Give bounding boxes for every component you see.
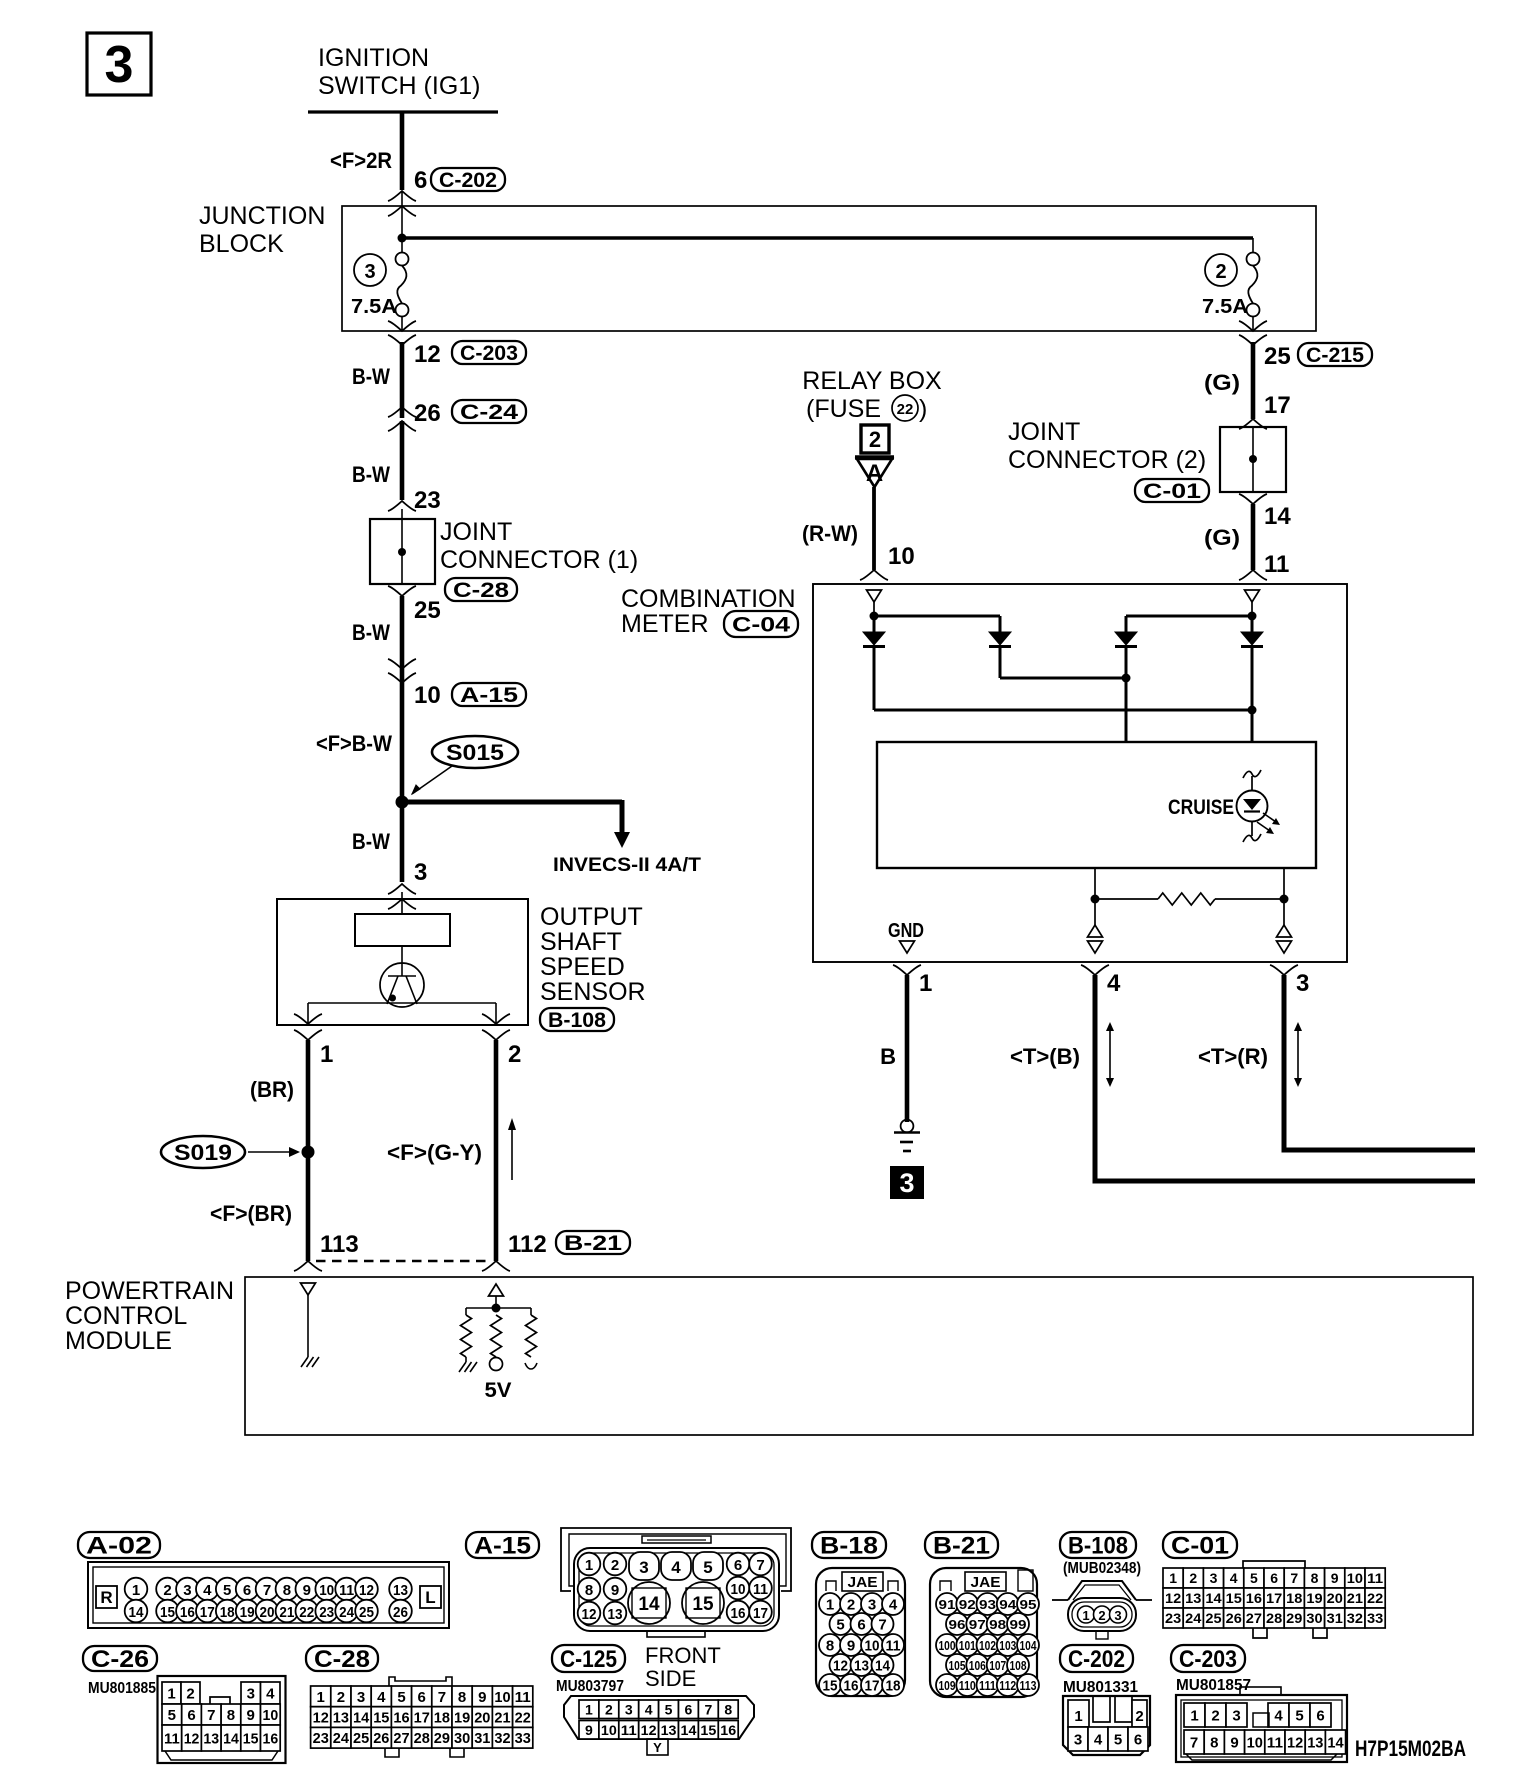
- svg-text:23: 23: [313, 1730, 329, 1747]
- sensor internal bus: [308, 1003, 496, 1024]
- svg-text:17: 17: [865, 1678, 880, 1695]
- svg-text:22: 22: [897, 401, 914, 418]
- svg-text:9: 9: [847, 1638, 855, 1655]
- svg-text:5: 5: [1295, 1707, 1303, 1724]
- svg-text:29: 29: [1286, 1610, 1302, 1626]
- sensor internal element: [355, 914, 450, 1007]
- svg-text:6: 6: [1134, 1731, 1142, 1748]
- svg-text:2: 2: [1098, 1608, 1105, 1623]
- svg-text:15: 15: [692, 1594, 714, 1615]
- svg-text:6: 6: [734, 1557, 742, 1574]
- svg-text:1: 1: [320, 1041, 333, 1068]
- relay box output 2A: [855, 425, 894, 487]
- svg-text:7: 7: [756, 1557, 764, 1574]
- diode matrix wiring: [870, 612, 1257, 633]
- svg-text:1: 1: [585, 1557, 593, 1574]
- svg-text:COMBINATION: COMBINATION: [621, 585, 796, 613]
- svg-text:25: 25: [353, 1730, 369, 1747]
- svg-text:10: 10: [1347, 1570, 1363, 1586]
- svg-text:11: 11: [1267, 1734, 1283, 1751]
- svg-text:16: 16: [263, 1730, 279, 1747]
- svg-text:15: 15: [373, 1709, 389, 1726]
- connector pinout C-202: [1060, 1645, 1150, 1755]
- svg-text:113: 113: [1020, 1678, 1037, 1693]
- svg-text:30: 30: [1306, 1610, 1322, 1626]
- svg-text:B-21: B-21: [564, 1232, 622, 1255]
- svg-text:91: 91: [939, 1597, 956, 1612]
- meter input pin 10 internal: [867, 590, 882, 616]
- fuse 2 (7.5A): [1202, 253, 1260, 319]
- svg-text:16: 16: [844, 1678, 859, 1695]
- svg-text:110: 110: [959, 1678, 976, 1693]
- diode D3: [1115, 632, 1137, 647]
- wire <F>(BR) to PCM 113: [210, 1152, 308, 1261]
- svg-text:1: 1: [132, 1582, 140, 1599]
- resistor R-left: [459, 1315, 477, 1372]
- connector pinout B-18: [812, 1532, 905, 1696]
- svg-text:7: 7: [704, 1701, 712, 1717]
- svg-text:9: 9: [303, 1582, 311, 1599]
- svg-text:16: 16: [1246, 1590, 1262, 1606]
- svg-text:8: 8: [458, 1689, 466, 1706]
- svg-text:SWITCH (IG1): SWITCH (IG1): [318, 72, 481, 100]
- svg-text:99: 99: [1010, 1617, 1027, 1632]
- svg-text:5V: 5V: [485, 1379, 512, 1402]
- svg-text:19: 19: [240, 1604, 255, 1621]
- svg-text:1: 1: [826, 1597, 834, 1614]
- svg-text:2: 2: [337, 1689, 345, 1706]
- svg-text:B-W: B-W: [352, 620, 390, 645]
- sensor pin 1: [294, 1014, 333, 1068]
- svg-text:97: 97: [969, 1617, 986, 1632]
- svg-text:R: R: [100, 1588, 112, 1607]
- svg-text:113: 113: [320, 1231, 359, 1258]
- wire B-W (C-203 to C-24): [352, 342, 402, 418]
- svg-text:10: 10: [731, 1581, 746, 1598]
- svg-text:3: 3: [625, 1701, 633, 1717]
- svg-text:JAE: JAE: [971, 1574, 1001, 1591]
- svg-text:SPEED: SPEED: [540, 953, 625, 981]
- svg-text:5: 5: [703, 1558, 712, 1577]
- svg-text:): ): [919, 395, 927, 423]
- meter pin 1: [893, 965, 932, 997]
- direction arrow (R): [1294, 1022, 1302, 1087]
- svg-text:14: 14: [638, 1594, 660, 1615]
- svg-text:POWERTRAIN: POWERTRAIN: [65, 1277, 234, 1305]
- svg-text:17: 17: [200, 1604, 215, 1621]
- joint connector 1 pin 25: [388, 586, 441, 624]
- svg-text:S019: S019: [174, 1140, 232, 1165]
- svg-text:11: 11: [1367, 1570, 1383, 1586]
- svg-text:(G): (G): [1204, 525, 1240, 550]
- PCM input 113 ground path: [301, 1283, 320, 1367]
- svg-text:32: 32: [494, 1730, 510, 1747]
- connector pinout B-108: [1052, 1532, 1152, 1639]
- connector C-202 pin 6: [388, 167, 505, 216]
- wire B-W (S015 to sensor): [352, 802, 402, 882]
- svg-text:27: 27: [393, 1730, 409, 1747]
- svg-text:11: 11: [1264, 551, 1289, 578]
- svg-text:5: 5: [1250, 1570, 1258, 1586]
- svg-text:7: 7: [1190, 1734, 1198, 1751]
- svg-text:16: 16: [393, 1709, 409, 1726]
- svg-text:A: A: [866, 460, 883, 487]
- svg-text:BLOCK: BLOCK: [199, 230, 284, 258]
- svg-text:9: 9: [611, 1582, 619, 1599]
- svg-text:31: 31: [1327, 1610, 1343, 1626]
- svg-text:100: 100: [939, 1638, 956, 1653]
- svg-text:7: 7: [438, 1689, 446, 1706]
- svg-text:<F>B-W: <F>B-W: [316, 731, 392, 756]
- svg-text:12: 12: [582, 1606, 597, 1623]
- connector C-215 pin 25: [1264, 343, 1372, 370]
- svg-text:6: 6: [685, 1701, 693, 1717]
- svg-text:19: 19: [1306, 1590, 1322, 1606]
- svg-text:<T>(R): <T>(R): [1198, 1044, 1268, 1069]
- svg-text:103: 103: [999, 1638, 1016, 1653]
- svg-text:1: 1: [317, 1689, 325, 1706]
- joint connector 2 pin 14: [1239, 494, 1291, 530]
- svg-text:4: 4: [1094, 1731, 1103, 1748]
- svg-text:S015: S015: [446, 740, 504, 765]
- svg-text:15: 15: [243, 1730, 259, 1747]
- diode D2: [989, 632, 1011, 647]
- CRUISE indicator LED: [1168, 770, 1280, 842]
- svg-text:31: 31: [474, 1730, 490, 1747]
- svg-text:(FUSE: (FUSE: [806, 395, 881, 423]
- svg-text:C-28: C-28: [314, 1646, 370, 1673]
- svg-text:96: 96: [949, 1617, 966, 1632]
- svg-text:26: 26: [393, 1604, 408, 1621]
- svg-text:10: 10: [601, 1722, 617, 1738]
- svg-text:6: 6: [1316, 1707, 1324, 1724]
- svg-text:24: 24: [333, 1730, 350, 1747]
- svg-text:6: 6: [414, 167, 427, 194]
- svg-text:C-24: C-24: [460, 401, 518, 424]
- svg-text:4: 4: [266, 1685, 275, 1702]
- svg-text:6: 6: [243, 1582, 251, 1599]
- svg-text:14: 14: [353, 1709, 370, 1726]
- wire B-W (joint connector 1 to A-15): [352, 596, 402, 683]
- svg-text:Y: Y: [653, 1740, 662, 1755]
- wire (G) to combination meter pin 11: [1204, 504, 1289, 580]
- svg-text:107: 107: [989, 1658, 1006, 1673]
- connector pinout A-15: [466, 1528, 791, 1637]
- svg-text:4: 4: [889, 1597, 898, 1614]
- svg-text:20: 20: [1327, 1590, 1343, 1606]
- svg-text:IGNITION: IGNITION: [318, 44, 429, 72]
- meter GND pin internal: [888, 920, 924, 953]
- svg-text:12: 12: [641, 1722, 657, 1738]
- diode D1: [863, 632, 885, 647]
- combination meter box C-04: [621, 584, 1347, 962]
- svg-text:11: 11: [886, 1638, 901, 1655]
- svg-text:22: 22: [299, 1604, 314, 1621]
- wire B-W (C-24 to joint connector 1): [352, 421, 402, 500]
- svg-text:111: 111: [979, 1678, 996, 1693]
- svg-text:10: 10: [263, 1707, 279, 1724]
- relay box (fuse 22) label: [802, 367, 942, 423]
- connector B-21 dashed grouping: [316, 1260, 488, 1262]
- svg-text:1: 1: [1074, 1708, 1082, 1725]
- svg-text:20: 20: [260, 1604, 275, 1621]
- svg-text:2: 2: [605, 1701, 613, 1717]
- svg-text:3: 3: [1210, 1570, 1218, 1586]
- svg-text:18: 18: [1286, 1590, 1302, 1606]
- svg-text:13: 13: [203, 1730, 219, 1747]
- drawing number: [1355, 1736, 1466, 1761]
- wire B to ground: [880, 975, 907, 1122]
- page number box 3: [87, 33, 151, 95]
- splice S015: [412, 736, 518, 794]
- svg-text:12: 12: [359, 1582, 374, 1599]
- svg-text:1: 1: [1190, 1707, 1198, 1724]
- fuse 3 output pin: [388, 238, 416, 345]
- svg-text:8: 8: [283, 1582, 291, 1599]
- svg-text:4: 4: [671, 1558, 681, 1577]
- connector pinout C-26: [83, 1646, 286, 1763]
- svg-text:102: 102: [979, 1638, 996, 1653]
- svg-text:13: 13: [661, 1722, 677, 1738]
- svg-text:10: 10: [319, 1582, 334, 1599]
- svg-text:23: 23: [1165, 1610, 1181, 1626]
- svg-text:5: 5: [223, 1582, 231, 1599]
- svg-text:SENSOR: SENSOR: [540, 978, 646, 1006]
- svg-text:5: 5: [168, 1707, 176, 1724]
- svg-text:21: 21: [279, 1604, 294, 1621]
- svg-text:3: 3: [364, 261, 375, 283]
- svg-text:CONNECTOR (2): CONNECTOR (2): [1008, 446, 1206, 474]
- meter output pin 3 internal: [1277, 925, 1292, 953]
- svg-text:OUTPUT: OUTPUT: [540, 903, 643, 931]
- junction block box: [199, 202, 1316, 331]
- wire <F>2R from ignition switch: [330, 112, 402, 190]
- svg-text:B: B: [880, 1044, 896, 1069]
- svg-text:23: 23: [319, 1604, 334, 1621]
- svg-text:8: 8: [1311, 1570, 1319, 1586]
- svg-text:2: 2: [163, 1582, 171, 1599]
- PCM pin 113: [294, 1231, 359, 1271]
- svg-text:16: 16: [731, 1605, 746, 1622]
- svg-text:2: 2: [611, 1557, 619, 1574]
- wire (R-W) to combination meter pin 10: [802, 487, 915, 580]
- diode output wiring: [874, 648, 1257, 742]
- svg-text:9: 9: [1331, 1570, 1339, 1586]
- connector pinout C-125: [552, 1643, 754, 1755]
- svg-text:10: 10: [888, 543, 915, 570]
- svg-text:15: 15: [823, 1678, 838, 1695]
- svg-text:106: 106: [969, 1658, 986, 1673]
- ground symbol: [894, 1120, 920, 1151]
- svg-text:RELAY BOX: RELAY BOX: [802, 367, 942, 395]
- svg-text:15: 15: [160, 1604, 175, 1621]
- svg-text:14: 14: [1327, 1734, 1344, 1751]
- svg-text:1: 1: [585, 1701, 593, 1717]
- svg-text:4: 4: [1230, 1570, 1238, 1586]
- svg-text:18: 18: [886, 1678, 901, 1695]
- svg-text:28: 28: [414, 1730, 430, 1747]
- svg-text:B-108: B-108: [1068, 1533, 1128, 1560]
- svg-text:CRUISE: CRUISE: [1168, 796, 1234, 819]
- svg-text:7.5A: 7.5A: [1202, 296, 1248, 318]
- resistor R-right: [525, 1315, 537, 1369]
- svg-text:13: 13: [1307, 1734, 1323, 1751]
- svg-text:<F>(G-Y): <F>(G-Y): [387, 1140, 482, 1165]
- svg-text:26: 26: [373, 1730, 389, 1747]
- svg-text:5: 5: [397, 1689, 405, 1706]
- svg-text:12: 12: [313, 1709, 329, 1726]
- svg-text:12: 12: [1165, 1590, 1181, 1606]
- svg-text:14: 14: [129, 1604, 145, 1621]
- svg-text:JOINT: JOINT: [440, 518, 512, 546]
- svg-text:11: 11: [515, 1689, 531, 1706]
- wire <F>(G-Y) sensor pin2 to PCM 112: [387, 1040, 496, 1261]
- svg-text:B-108: B-108: [548, 1009, 606, 1032]
- svg-text:14: 14: [875, 1658, 891, 1675]
- svg-text:109: 109: [939, 1678, 956, 1693]
- svg-text:26: 26: [414, 400, 441, 427]
- svg-text:3: 3: [1114, 1608, 1121, 1623]
- svg-text:95: 95: [1020, 1597, 1037, 1612]
- svg-text:26: 26: [1226, 1610, 1242, 1626]
- svg-text:8: 8: [1210, 1734, 1218, 1751]
- svg-text:MODULE: MODULE: [65, 1327, 172, 1355]
- joint connector (2) C-01: [1008, 418, 1286, 503]
- svg-text:(R-W): (R-W): [802, 521, 858, 546]
- connector pinout B-21: [925, 1532, 1039, 1697]
- svg-text:10: 10: [865, 1638, 880, 1655]
- svg-text:C-203: C-203: [460, 342, 518, 365]
- svg-text:3: 3: [899, 1168, 914, 1198]
- svg-text:2: 2: [1135, 1708, 1143, 1725]
- svg-text:B-18: B-18: [820, 1533, 878, 1560]
- svg-text:SHAFT: SHAFT: [540, 928, 622, 956]
- svg-text:10: 10: [414, 682, 441, 709]
- connector pinout C-203: [1171, 1645, 1347, 1762]
- wire to INVECS-II 4A/T: [402, 800, 701, 876]
- svg-text:JOINT: JOINT: [1008, 418, 1080, 446]
- svg-text:(BR): (BR): [250, 1077, 294, 1102]
- svg-text:5: 5: [1114, 1731, 1122, 1748]
- PCM input 112 pull-up network: [466, 1284, 531, 1315]
- svg-text:13: 13: [608, 1606, 623, 1623]
- PCM pin 112 (B-21): [482, 1231, 630, 1271]
- svg-text:112: 112: [999, 1678, 1016, 1693]
- svg-text:12: 12: [414, 341, 441, 368]
- svg-text:8: 8: [826, 1638, 834, 1655]
- ignition switch (IG1) label: [318, 44, 481, 100]
- svg-text:25: 25: [359, 1604, 374, 1621]
- svg-text:2: 2: [847, 1597, 855, 1614]
- svg-text:4: 4: [203, 1582, 212, 1599]
- svg-text:C-202: C-202: [1068, 1646, 1125, 1673]
- wire <T>(R) from pin 3: [1198, 975, 1475, 1150]
- svg-text:16: 16: [720, 1722, 736, 1738]
- svg-text:28: 28: [1266, 1610, 1282, 1626]
- svg-text:C-01: C-01: [1171, 1533, 1229, 1560]
- svg-text:22: 22: [1367, 1590, 1383, 1606]
- svg-text:8: 8: [227, 1707, 235, 1724]
- connector C-24 pin 26: [388, 400, 526, 431]
- connector pinout C-01: [1163, 1532, 1385, 1638]
- svg-text:(MUB02348): (MUB02348): [1063, 1560, 1141, 1577]
- svg-text:101: 101: [959, 1638, 976, 1653]
- svg-text:C-28: C-28: [453, 579, 509, 602]
- svg-text:METER: METER: [621, 610, 709, 638]
- ignition switch bus bar: [308, 110, 498, 113]
- svg-text:22: 22: [515, 1709, 531, 1726]
- wire (G) to joint connector 2: [1204, 342, 1291, 419]
- svg-text:12: 12: [1287, 1734, 1303, 1751]
- svg-text:6: 6: [418, 1689, 426, 1706]
- node S015 junction: [396, 796, 409, 809]
- svg-text:11: 11: [753, 1581, 768, 1598]
- svg-text:4: 4: [1274, 1707, 1283, 1724]
- svg-text:92: 92: [959, 1597, 976, 1612]
- resistor R-mid to 5V: [485, 1315, 512, 1402]
- svg-text:INVECS-II 4A/T: INVECS-II 4A/T: [553, 855, 701, 876]
- svg-text:MU801885: MU801885: [88, 1680, 156, 1697]
- svg-text:A-02: A-02: [86, 1533, 152, 1560]
- connector pinout C-28: [306, 1646, 533, 1757]
- svg-text:5: 5: [836, 1617, 844, 1634]
- svg-text:13: 13: [393, 1582, 408, 1599]
- svg-text:H7P15M02BA: H7P15M02BA: [1355, 1736, 1466, 1761]
- svg-text:24: 24: [339, 1604, 355, 1621]
- svg-text:2: 2: [869, 427, 881, 452]
- meter output pin 4 internal: [1088, 925, 1103, 953]
- svg-text:3: 3: [414, 859, 427, 886]
- fuse 2 output pin: [1239, 316, 1267, 345]
- svg-text:9: 9: [585, 1722, 593, 1738]
- svg-text:25: 25: [1264, 343, 1291, 370]
- svg-text:7: 7: [878, 1617, 886, 1634]
- joint connector (1) C-28: [370, 518, 638, 602]
- svg-text:93: 93: [979, 1597, 996, 1612]
- wire (BR) sensor pin1 to S019: [250, 1040, 308, 1152]
- svg-text:9: 9: [246, 1707, 254, 1724]
- svg-text:3: 3: [247, 1685, 255, 1702]
- svg-text:4: 4: [1107, 970, 1121, 997]
- svg-text:B-W: B-W: [352, 364, 390, 389]
- svg-text:A-15: A-15: [460, 684, 518, 707]
- svg-text:4: 4: [377, 1689, 386, 1706]
- ground reference 3 (black): [890, 1166, 924, 1199]
- svg-text:3: 3: [1232, 1707, 1240, 1724]
- svg-text:2: 2: [508, 1041, 521, 1068]
- splice S019: [161, 1136, 300, 1168]
- svg-text:14: 14: [1264, 503, 1291, 530]
- svg-text:11: 11: [621, 1722, 637, 1738]
- svg-text:MU803797: MU803797: [556, 1678, 624, 1695]
- svg-text:13: 13: [333, 1709, 349, 1726]
- svg-text:<F>(BR): <F>(BR): [210, 1201, 292, 1226]
- direction arrow (G-Y): [508, 1118, 516, 1180]
- svg-text:B-21: B-21: [933, 1533, 990, 1560]
- svg-text:<T>(B): <T>(B): [1010, 1044, 1080, 1069]
- svg-text:19: 19: [454, 1709, 470, 1726]
- wire <T>(B) from pin 4: [1010, 975, 1475, 1181]
- sensor pin 3: [388, 859, 427, 914]
- svg-text:94: 94: [999, 1597, 1017, 1612]
- connector pinout A-02: [78, 1532, 449, 1628]
- svg-text:3: 3: [183, 1582, 191, 1599]
- sensor pin 2: [482, 1014, 521, 1068]
- svg-text:12: 12: [184, 1730, 200, 1747]
- svg-text:<F>2R: <F>2R: [330, 148, 392, 173]
- svg-text:23: 23: [414, 487, 441, 514]
- meter pin 4: [1081, 965, 1121, 997]
